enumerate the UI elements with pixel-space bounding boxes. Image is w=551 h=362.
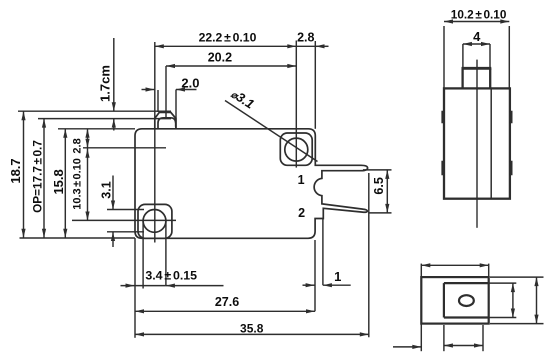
svg-text:27.6: 27.6 xyxy=(215,295,239,309)
svg-text:35.8: 35.8 xyxy=(240,321,264,335)
svg-text:10.3±0.102.8: 10.3±0.102.8 xyxy=(71,138,83,209)
svg-text:20.2: 20.2 xyxy=(208,50,232,64)
svg-text:2.8: 2.8 xyxy=(297,30,314,44)
svg-text:22.2±0.10: 22.2±0.10 xyxy=(199,30,257,44)
svg-text:10.2±0.10: 10.2±0.10 xyxy=(451,7,507,21)
svg-text:1: 1 xyxy=(298,173,305,187)
svg-text:15.8: 15.8 xyxy=(51,169,66,194)
svg-text:18.7: 18.7 xyxy=(8,158,23,183)
svg-text:2: 2 xyxy=(298,206,305,220)
svg-text:4: 4 xyxy=(473,29,481,44)
svg-text:3.1: 3.1 xyxy=(100,181,114,198)
svg-text:2.0: 2.0 xyxy=(181,75,199,90)
svg-text:OP=17.7±0.7: OP=17.7±0.7 xyxy=(31,140,45,213)
svg-text:1.7cm: 1.7cm xyxy=(98,65,113,102)
svg-text:6.5: 6.5 xyxy=(372,177,386,194)
svg-text:1: 1 xyxy=(334,269,341,284)
